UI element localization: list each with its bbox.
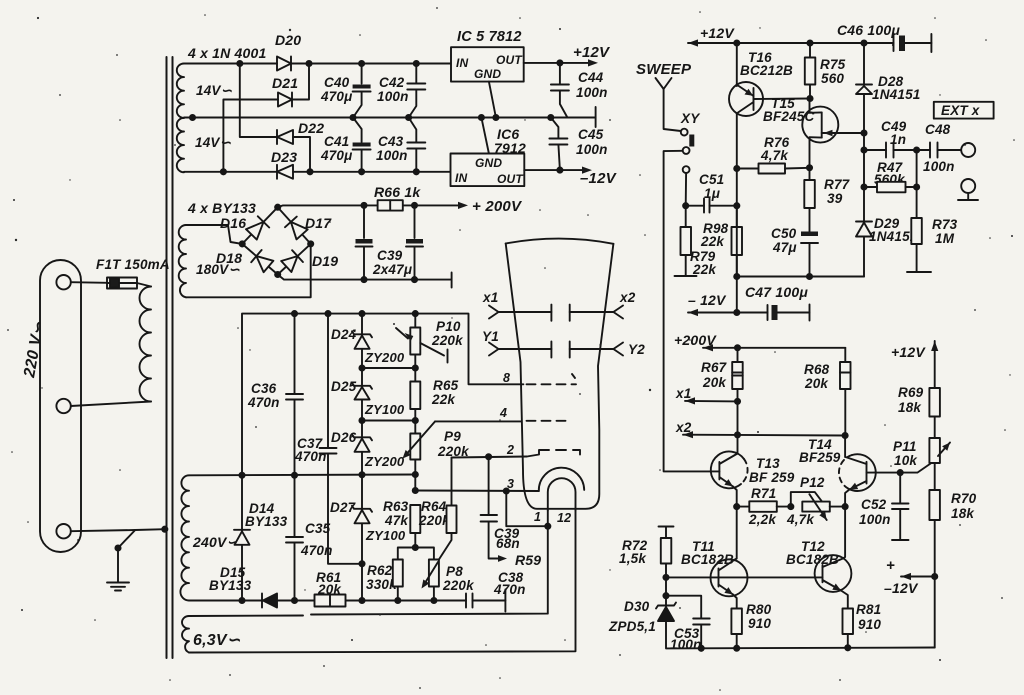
svg-text:+: + bbox=[886, 557, 895, 574]
wire bottom rail y600 bbox=[189, 600, 262, 602]
svg-text:– 12V: – 12V bbox=[688, 292, 727, 308]
svg-text:14V∽: 14V∽ bbox=[195, 135, 232, 150]
svg-text:D20: D20 bbox=[275, 32, 301, 48]
svg-text:4,7k: 4,7k bbox=[760, 148, 789, 163]
svg-text:C39: C39 bbox=[377, 248, 403, 263]
svg-text:470n: 470n bbox=[247, 395, 280, 410]
plug pin middle bbox=[56, 399, 70, 413]
svg-text:R67: R67 bbox=[701, 360, 728, 375]
transformer core bbox=[166, 57, 168, 658]
wire plug bottom pin to core bbox=[71, 529, 165, 531]
wire T14 base row bbox=[874, 463, 935, 473]
svg-text:22k: 22k bbox=[692, 262, 717, 277]
wire D22 branch bbox=[240, 64, 277, 138]
svg-text:D17: D17 bbox=[305, 215, 332, 231]
svg-text:Y2: Y2 bbox=[628, 342, 645, 357]
svg-text:D22: D22 bbox=[298, 120, 324, 136]
wire -12V sub rail bbox=[737, 276, 864, 278]
svg-text:100n: 100n bbox=[923, 159, 955, 174]
svg-text:22k: 22k bbox=[700, 234, 725, 249]
wire HV rail y313 bbox=[242, 314, 523, 601]
svg-text:1,5k: 1,5k bbox=[619, 551, 647, 566]
svg-text:1N4151: 1N4151 bbox=[869, 229, 918, 244]
svg-text:R77: R77 bbox=[824, 177, 851, 192]
svg-text:100n: 100n bbox=[670, 637, 702, 652]
CRT gun inner bbox=[548, 478, 576, 510]
svg-text:x2: x2 bbox=[619, 290, 636, 305]
svg-text:R68: R68 bbox=[804, 362, 830, 377]
svg-text:100n: 100n bbox=[376, 148, 408, 163]
CRT gun outer bbox=[539, 468, 584, 491]
winding 180V bbox=[179, 225, 186, 297]
svg-text:100n: 100n bbox=[859, 512, 891, 527]
svg-text:Y1: Y1 bbox=[482, 329, 499, 344]
wire zener row2 bbox=[362, 420, 415, 422]
svg-text:C50: C50 bbox=[771, 226, 797, 241]
svg-text:4 x 1N 4001: 4 x 1N 4001 bbox=[187, 45, 266, 61]
svg-text:C43: C43 bbox=[378, 134, 404, 149]
svg-text:R73: R73 bbox=[932, 217, 958, 232]
svg-text:SWEEP: SWEEP bbox=[636, 61, 692, 78]
svg-text:100n: 100n bbox=[576, 85, 608, 100]
wire primary bottom to plug middle pin bbox=[71, 402, 151, 407]
svg-text:R69: R69 bbox=[898, 385, 924, 400]
ground mains earth bbox=[107, 582, 129, 584]
svg-text:x1: x1 bbox=[482, 290, 498, 305]
wire +12V output bbox=[524, 62, 592, 64]
wire -12V output bbox=[524, 169, 586, 171]
mains plug outline bbox=[40, 260, 81, 552]
svg-text:GND: GND bbox=[475, 156, 502, 170]
svg-text:4: 4 bbox=[499, 406, 507, 420]
ground R73 bbox=[907, 271, 931, 273]
svg-text:10k: 10k bbox=[894, 453, 918, 468]
svg-text:–12V: –12V bbox=[580, 170, 618, 187]
svg-text:47k: 47k bbox=[384, 513, 409, 528]
svg-text:ZY200: ZY200 bbox=[364, 454, 405, 469]
svg-text:P11: P11 bbox=[893, 439, 917, 454]
plug pin top bbox=[56, 275, 70, 289]
svg-text:14V∽: 14V∽ bbox=[196, 83, 233, 98]
svg-text:220k: 220k bbox=[442, 578, 475, 593]
svg-text:8: 8 bbox=[503, 371, 510, 385]
svg-text:12: 12 bbox=[557, 511, 571, 525]
svg-text:D16: D16 bbox=[220, 215, 246, 231]
wire fuse to primary bbox=[137, 283, 151, 287]
wire winding bottom to bridge right bbox=[186, 244, 311, 297]
winding 240V bbox=[180, 475, 189, 600]
svg-text:C52: C52 bbox=[861, 497, 887, 512]
svg-text:220 V∽: 220 V∽ bbox=[21, 320, 48, 380]
svg-text:P8: P8 bbox=[446, 564, 463, 579]
winding 6.3V bbox=[182, 616, 189, 652]
wire switch to T13 base column bbox=[664, 151, 711, 472]
svg-text:IN: IN bbox=[456, 56, 469, 70]
svg-text:BF 259: BF 259 bbox=[749, 470, 795, 485]
svg-text:D21: D21 bbox=[272, 75, 298, 91]
svg-text:ZPD5,1: ZPD5,1 bbox=[608, 619, 656, 634]
svg-text:ZY100: ZY100 bbox=[365, 528, 406, 543]
wire bridge minus rail bbox=[278, 275, 452, 280]
svg-text:470μ: 470μ bbox=[320, 89, 352, 104]
svg-text:P12: P12 bbox=[800, 475, 825, 490]
bridge diamond bbox=[242, 207, 311, 274]
svg-text:R70: R70 bbox=[951, 491, 977, 506]
svg-text:20k: 20k bbox=[804, 376, 829, 391]
svg-text:C42: C42 bbox=[379, 75, 405, 90]
svg-text:ZY200: ZY200 bbox=[364, 350, 405, 365]
svg-text:BY133: BY133 bbox=[245, 514, 288, 529]
wire tube pin1 bbox=[311, 511, 548, 615]
wire D21 branch bbox=[223, 100, 278, 172]
svg-text:D25: D25 bbox=[331, 379, 357, 394]
svg-text:D18: D18 bbox=[216, 250, 242, 266]
node ground terminal bbox=[961, 179, 975, 193]
svg-text:R62: R62 bbox=[367, 563, 393, 578]
wire bottom rail bbox=[184, 171, 277, 173]
svg-text:C35: C35 bbox=[305, 521, 331, 536]
svg-text:D30: D30 bbox=[624, 599, 650, 614]
svg-text:560: 560 bbox=[821, 71, 844, 86]
svg-text:C46 100μ: C46 100μ bbox=[837, 22, 900, 38]
svg-text:470n: 470n bbox=[294, 449, 327, 464]
wire IC5 gnd bbox=[489, 82, 496, 118]
svg-text:D19: D19 bbox=[312, 253, 338, 269]
wire +200V rail bbox=[278, 205, 378, 207]
wire base row T11 T12 bbox=[666, 576, 823, 578]
svg-text:100n: 100n bbox=[377, 89, 409, 104]
svg-text:910: 910 bbox=[748, 616, 771, 631]
svg-text:IN: IN bbox=[455, 171, 468, 185]
svg-text:R81: R81 bbox=[856, 602, 881, 617]
transformer primary winding bbox=[140, 287, 152, 402]
wire zener row1 bbox=[362, 367, 415, 369]
svg-text:P10: P10 bbox=[436, 319, 461, 334]
svg-text:C47 100μ: C47 100μ bbox=[745, 284, 808, 300]
svg-text:4,7k: 4,7k bbox=[786, 512, 815, 527]
svg-text:R66 1k: R66 1k bbox=[374, 184, 421, 200]
svg-text:ZY100: ZY100 bbox=[364, 402, 405, 417]
svg-text:XY: XY bbox=[680, 111, 701, 126]
plug pin bottom bbox=[56, 524, 70, 538]
svg-text:2: 2 bbox=[506, 443, 514, 457]
svg-text:6,3V∽: 6,3V∽ bbox=[193, 632, 241, 649]
svg-text:BF259: BF259 bbox=[799, 450, 841, 465]
wire 240V top rail bbox=[189, 474, 415, 477]
node center rail end bar bbox=[595, 107, 597, 127]
svg-text:240V∽: 240V∽ bbox=[192, 534, 238, 550]
svg-text:39: 39 bbox=[827, 191, 843, 206]
CRT tube outline bbox=[506, 244, 614, 509]
wire top rail bbox=[184, 63, 277, 65]
svg-text:D23: D23 bbox=[271, 149, 297, 165]
svg-text:1N4151: 1N4151 bbox=[872, 87, 921, 102]
wire switch lower contact down bbox=[685, 173, 687, 206]
svg-text:2,2k: 2,2k bbox=[748, 512, 777, 527]
svg-text:C51: C51 bbox=[699, 172, 724, 187]
svg-text:R63: R63 bbox=[383, 499, 409, 514]
wire +12V rail right bbox=[688, 39, 698, 46]
svg-text:IC 5 7812: IC 5 7812 bbox=[457, 29, 522, 45]
svg-text:D24: D24 bbox=[331, 327, 357, 342]
node EXT X terminal bbox=[961, 143, 975, 157]
svg-text:C41: C41 bbox=[324, 134, 349, 149]
svg-text:R71: R71 bbox=[751, 486, 776, 501]
svg-text:+ 200V: + 200V bbox=[472, 198, 523, 215]
wire T16 base to T15 drain bbox=[754, 98, 811, 101]
svg-text:470n: 470n bbox=[493, 582, 526, 597]
svg-text:OUT: OUT bbox=[497, 172, 524, 186]
svg-text:1n: 1n bbox=[890, 132, 906, 147]
fuse F1 bbox=[107, 278, 137, 289]
wire winding to bridge left bbox=[186, 225, 242, 244]
svg-text:+12V: +12V bbox=[891, 344, 926, 360]
winding 14V upper bbox=[177, 64, 184, 118]
svg-text:GND: GND bbox=[474, 67, 501, 81]
svg-text:C44: C44 bbox=[578, 70, 604, 85]
svg-text:18k: 18k bbox=[951, 506, 975, 521]
svg-text:470μ: 470μ bbox=[320, 148, 352, 163]
svg-text:220k: 220k bbox=[431, 333, 464, 348]
svg-text:P9: P9 bbox=[444, 429, 461, 444]
node sweep input bbox=[656, 78, 672, 89]
svg-text:C48: C48 bbox=[925, 122, 951, 137]
svg-text:R59: R59 bbox=[515, 552, 541, 568]
svg-text:x1: x1 bbox=[675, 386, 691, 401]
svg-text:1M: 1M bbox=[935, 231, 955, 246]
svg-text:2x47μ: 2x47μ bbox=[372, 262, 412, 277]
wire to mains earth bbox=[118, 530, 135, 582]
svg-text:100n: 100n bbox=[576, 142, 608, 157]
svg-text:R65: R65 bbox=[433, 378, 459, 393]
svg-text:F1T 150mA: F1T 150mA bbox=[96, 257, 170, 272]
svg-text:C40: C40 bbox=[324, 75, 350, 90]
svg-text:OUT: OUT bbox=[496, 53, 523, 67]
svg-text:68n: 68n bbox=[496, 536, 520, 551]
svg-text:BF245C: BF245C bbox=[763, 109, 815, 124]
wire plug top to fuse bbox=[71, 281, 107, 284]
svg-text:R75: R75 bbox=[820, 57, 846, 72]
svg-text:C36: C36 bbox=[251, 381, 277, 396]
svg-text:D26: D26 bbox=[331, 430, 357, 445]
svg-text:1: 1 bbox=[534, 510, 541, 524]
wire tube pin12 bbox=[189, 511, 576, 653]
svg-text:BY133: BY133 bbox=[209, 578, 252, 593]
svg-text:EXT x: EXT x bbox=[941, 103, 980, 118]
svg-text:C45: C45 bbox=[578, 127, 604, 142]
svg-text:–12V: –12V bbox=[884, 580, 919, 596]
svg-text:910: 910 bbox=[858, 617, 881, 632]
label EXT X bbox=[934, 102, 994, 119]
svg-text:22k: 22k bbox=[431, 392, 456, 407]
svg-text:20k: 20k bbox=[702, 375, 727, 390]
wire center rail bbox=[184, 117, 596, 119]
svg-text:47μ: 47μ bbox=[772, 240, 797, 255]
svg-text:+12V: +12V bbox=[573, 44, 611, 61]
svg-text:1μ: 1μ bbox=[704, 186, 720, 201]
svg-text:4 x BY133: 4 x BY133 bbox=[187, 200, 256, 216]
winding 14V lower bbox=[177, 118, 184, 172]
svg-text:BC212B: BC212B bbox=[740, 63, 793, 78]
wire IC6 gnd bbox=[481, 118, 489, 154]
svg-text:T13: T13 bbox=[756, 456, 780, 471]
svg-text:+12V: +12V bbox=[700, 25, 735, 41]
svg-text:R80: R80 bbox=[746, 602, 772, 617]
svg-text:18k: 18k bbox=[898, 400, 922, 415]
capacitor C39b 2x47u bbox=[414, 205, 416, 238]
svg-text:R64: R64 bbox=[421, 499, 447, 514]
